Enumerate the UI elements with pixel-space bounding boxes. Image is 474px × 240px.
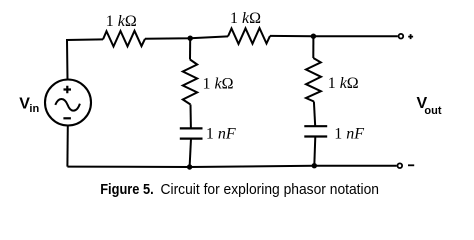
svg-text:1 kΩ: 1 kΩ: [230, 10, 261, 27]
label Vin: [19, 95, 39, 115]
wire: [189, 38, 191, 59]
+ polarity of source: [64, 86, 72, 93]
voltage source VS: [45, 80, 91, 126]
label 1 kΩ R3: [203, 76, 234, 93]
wire: [270, 35, 398, 37]
resistor R1: [103, 31, 145, 47]
label Vout: [417, 95, 442, 117]
label 1 kΩ R2: [230, 10, 261, 27]
resistor R4: [306, 58, 321, 102]
wire: [67, 166, 396, 167]
capacitor C2: [304, 126, 327, 136]
output terminal minus: [398, 163, 403, 168]
resistor R3: [183, 60, 197, 105]
svg-text:1 kΩ: 1 kΩ: [106, 13, 137, 30]
label 1 kΩ R4: [328, 75, 359, 92]
svg-text:1 kΩ: 1 kΩ: [328, 75, 359, 92]
resistor R2: [228, 28, 270, 44]
svg-text:1 nF: 1 nF: [206, 126, 236, 143]
capacitor C1: [180, 128, 203, 138]
wire: [312, 36, 314, 58]
node junction1: [188, 36, 193, 41]
node junction2: [311, 34, 316, 39]
wire: [190, 139, 191, 167]
wire: [66, 126, 68, 167]
node junction3: [187, 164, 192, 169]
wire: [67, 39, 103, 79]
caption Figure 5: [100, 181, 379, 198]
node junction4: [312, 163, 317, 168]
label 1 nF C1: [206, 126, 236, 143]
label 1 kΩ R1: [106, 13, 137, 30]
svg-text:1 nF: 1 nF: [334, 126, 364, 143]
label 1 nF C2: [334, 126, 364, 143]
- polarity of source: [63, 117, 71, 119]
wire: [314, 102, 315, 127]
wire: [145, 36, 228, 38]
output terminal plus: [399, 34, 404, 39]
svg-text:Circuit for exploring phasor n: Circuit for exploring phasor notation: [161, 181, 380, 198]
wire: [190, 105, 192, 129]
svg-text:Figure 5.: Figure 5.: [100, 181, 154, 198]
svg-text:in: in: [29, 103, 39, 115]
svg-text:1 kΩ: 1 kΩ: [203, 76, 234, 93]
wire: [314, 137, 315, 166]
svg-text:out: out: [424, 105, 441, 117]
